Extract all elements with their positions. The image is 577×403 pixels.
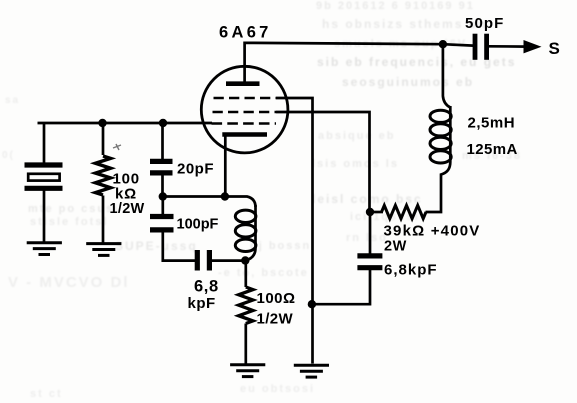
svg-text:39kΩ +400V: 39kΩ +400V	[384, 222, 481, 239]
svg-text:6A67: 6A67	[219, 24, 272, 42]
svg-text:20pF: 20pF	[177, 161, 214, 178]
svg-text:1/2W: 1/2W	[257, 311, 294, 328]
svg-text:6,8kpF: 6,8kpF	[384, 262, 438, 279]
svg-text:100Ω: 100Ω	[257, 290, 296, 307]
svg-text:50pF: 50pF	[465, 15, 504, 32]
svg-text:100pF: 100pF	[177, 216, 219, 232]
svg-text:6,8: 6,8	[194, 278, 219, 296]
svg-text:S: S	[549, 39, 560, 58]
svg-text:1/2W: 1/2W	[110, 201, 145, 217]
svg-text:2W: 2W	[384, 238, 407, 254]
svg-text:125mA: 125mA	[467, 141, 518, 158]
svg-text:kpF: kpF	[188, 295, 216, 312]
svg-text:2,5mH: 2,5mH	[468, 115, 516, 132]
svg-text:kΩ: kΩ	[115, 186, 137, 203]
